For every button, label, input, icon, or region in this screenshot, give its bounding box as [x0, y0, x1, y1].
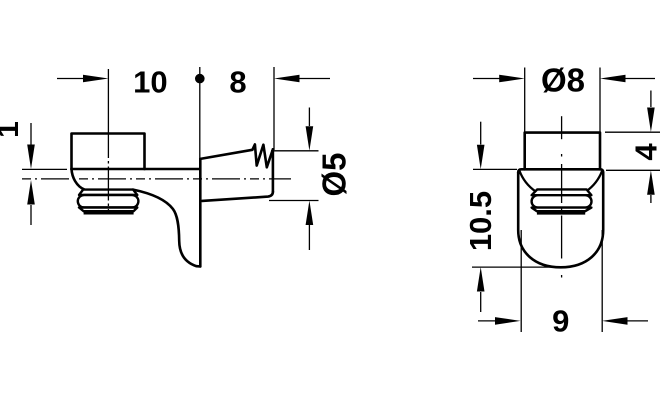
svg-text:Ø8: Ø8 [541, 61, 585, 98]
svg-text:4: 4 [629, 143, 660, 161]
svg-text:Ø5: Ø5 [315, 152, 352, 196]
svg-text:10: 10 [133, 65, 167, 100]
svg-text:8: 8 [229, 65, 246, 100]
svg-text:9: 9 [552, 304, 569, 339]
svg-text:1: 1 [0, 121, 25, 138]
svg-text:10.5: 10.5 [463, 191, 498, 251]
